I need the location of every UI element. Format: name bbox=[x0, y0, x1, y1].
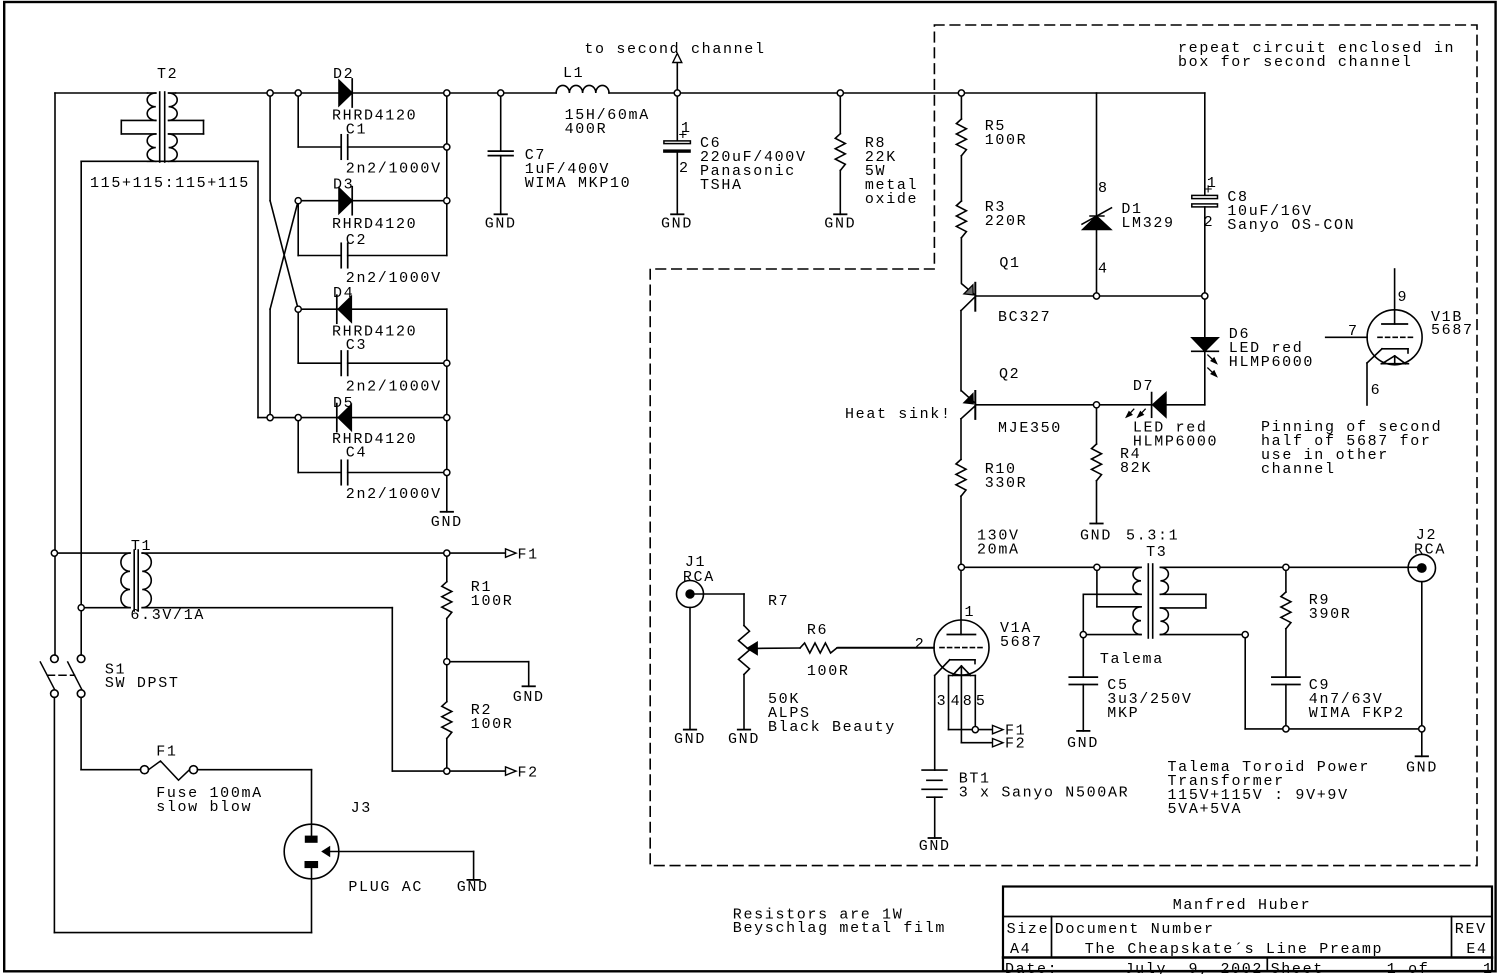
svg-text:July 9, 2002: July 9, 2002 bbox=[1125, 961, 1264, 974]
svg-text:MJE350: MJE350 bbox=[998, 420, 1062, 437]
svg-text:R7: R7 bbox=[768, 593, 789, 610]
svg-text:L1: L1 bbox=[563, 65, 584, 82]
svg-text:A4: A4 bbox=[1010, 941, 1031, 958]
svg-text:Size: Size bbox=[1007, 921, 1050, 938]
svg-text:5.3:1: 5.3:1 bbox=[1126, 528, 1179, 545]
svg-text:Document Number: Document Number bbox=[1055, 921, 1215, 938]
svg-text:C4: C4 bbox=[346, 445, 367, 462]
svg-text:LM329: LM329 bbox=[1121, 215, 1174, 232]
svg-text:GND: GND bbox=[1406, 760, 1438, 777]
svg-text:box for second channel: box for second channel bbox=[1178, 54, 1413, 71]
svg-text:slow blow: slow blow bbox=[156, 799, 252, 816]
svg-text:1 of: 1 of bbox=[1387, 961, 1430, 974]
svg-text:WIMA MKP10: WIMA MKP10 bbox=[525, 175, 632, 192]
svg-text:REV: REV bbox=[1455, 921, 1487, 938]
svg-text:100R: 100R bbox=[985, 132, 1028, 149]
svg-text:TSHA: TSHA bbox=[700, 177, 743, 194]
svg-text:D5: D5 bbox=[333, 395, 354, 412]
svg-text:T2: T2 bbox=[157, 66, 178, 83]
svg-text:PLUG AC: PLUG AC bbox=[348, 879, 423, 896]
svg-text:MKP: MKP bbox=[1107, 705, 1139, 722]
svg-text:Manfred Huber: Manfred Huber bbox=[1173, 897, 1312, 914]
svg-text:2n2/1000V: 2n2/1000V bbox=[346, 270, 442, 287]
svg-text:400R: 400R bbox=[565, 121, 608, 138]
svg-text:4: 4 bbox=[951, 693, 962, 710]
svg-text:GND: GND bbox=[919, 838, 951, 855]
svg-text:220R: 220R bbox=[985, 213, 1028, 230]
svg-text:8: 8 bbox=[963, 693, 974, 710]
svg-text:GND: GND bbox=[661, 216, 693, 233]
svg-text:115+115:115+115: 115+115:115+115 bbox=[90, 175, 250, 192]
svg-text:5687: 5687 bbox=[1431, 322, 1474, 339]
svg-text:100R: 100R bbox=[807, 663, 850, 680]
svg-text:Q2: Q2 bbox=[999, 366, 1020, 383]
svg-text:3: 3 bbox=[937, 693, 948, 710]
svg-text:3 x Sanyo N500AR: 3 x Sanyo N500AR bbox=[959, 785, 1130, 802]
svg-text:Beyschlag metal film: Beyschlag metal film bbox=[733, 920, 946, 937]
svg-text:GND: GND bbox=[824, 216, 856, 233]
svg-text:C3: C3 bbox=[346, 337, 367, 354]
svg-text:GND: GND bbox=[1067, 735, 1099, 752]
svg-text:2n2/1000V: 2n2/1000V bbox=[346, 161, 442, 178]
svg-text:Sanyo OS-CON: Sanyo OS-CON bbox=[1227, 217, 1355, 234]
svg-text:6.3V/1A: 6.3V/1A bbox=[130, 607, 205, 624]
svg-text:J3: J3 bbox=[351, 800, 372, 817]
svg-text:C1: C1 bbox=[346, 122, 367, 139]
svg-text:F2: F2 bbox=[518, 765, 539, 782]
svg-text:4: 4 bbox=[1098, 261, 1109, 278]
svg-text:20mA: 20mA bbox=[977, 542, 1020, 559]
svg-text:1: 1 bbox=[965, 604, 976, 621]
svg-text:7: 7 bbox=[1348, 323, 1359, 340]
svg-text:R6: R6 bbox=[807, 622, 828, 639]
svg-text:GND: GND bbox=[513, 689, 545, 706]
svg-text:Talema: Talema bbox=[1100, 651, 1164, 668]
svg-text:2n2/1000V: 2n2/1000V bbox=[346, 486, 442, 503]
svg-text:Black Beauty: Black Beauty bbox=[768, 719, 896, 736]
svg-text:D7: D7 bbox=[1133, 378, 1154, 395]
svg-text:HLMP6000: HLMP6000 bbox=[1133, 434, 1218, 451]
svg-text:RCA: RCA bbox=[1414, 542, 1446, 559]
svg-text:5687: 5687 bbox=[1000, 634, 1043, 651]
svg-text:T1: T1 bbox=[131, 538, 152, 555]
svg-text:The Cheapskate´s Line Preamp: The Cheapskate´s Line Preamp bbox=[1085, 941, 1384, 958]
svg-text:Heat sink!: Heat sink! bbox=[845, 406, 952, 423]
svg-text:C2: C2 bbox=[346, 232, 367, 249]
svg-text:GND: GND bbox=[431, 514, 463, 531]
svg-text:2: 2 bbox=[1204, 214, 1215, 231]
svg-text:Date:: Date: bbox=[1005, 961, 1058, 974]
svg-text:GND: GND bbox=[1080, 528, 1112, 545]
svg-text:9: 9 bbox=[1398, 289, 1409, 306]
svg-text:GND: GND bbox=[728, 731, 760, 748]
svg-text:F1: F1 bbox=[518, 547, 539, 564]
svg-text:BC327: BC327 bbox=[998, 309, 1051, 326]
svg-text:F2: F2 bbox=[1005, 736, 1026, 753]
svg-text:channel: channel bbox=[1261, 461, 1336, 478]
svg-text:+: + bbox=[678, 128, 689, 145]
svg-text:2: 2 bbox=[679, 160, 690, 177]
svg-text:T3: T3 bbox=[1146, 544, 1167, 561]
svg-text:D4: D4 bbox=[333, 285, 354, 302]
svg-text:Sheet: Sheet bbox=[1271, 961, 1324, 974]
svg-text:F1: F1 bbox=[156, 744, 177, 761]
svg-text:82K: 82K bbox=[1120, 460, 1152, 477]
svg-text:RHRD4120: RHRD4120 bbox=[332, 108, 417, 125]
svg-text:RHRD4120: RHRD4120 bbox=[332, 431, 417, 448]
svg-text:8: 8 bbox=[1098, 180, 1109, 197]
svg-text:D3: D3 bbox=[333, 177, 354, 194]
svg-text:100R: 100R bbox=[471, 716, 514, 733]
svg-text:GND: GND bbox=[674, 731, 706, 748]
svg-text:HLMP6000: HLMP6000 bbox=[1229, 354, 1314, 371]
svg-text:SW DPST: SW DPST bbox=[105, 675, 180, 692]
svg-text:oxide: oxide bbox=[865, 191, 918, 208]
svg-text:E4: E4 bbox=[1466, 941, 1487, 958]
svg-text:to second channel: to second channel bbox=[584, 41, 765, 58]
svg-text:RHRD4120: RHRD4120 bbox=[332, 324, 417, 341]
svg-text:5VA+5VA: 5VA+5VA bbox=[1168, 801, 1243, 818]
svg-text:1: 1 bbox=[1483, 961, 1494, 974]
svg-text:WIMA FKP2: WIMA FKP2 bbox=[1309, 705, 1405, 722]
svg-text:Q1: Q1 bbox=[999, 255, 1020, 272]
svg-text:RCA: RCA bbox=[683, 569, 715, 586]
svg-text:330R: 330R bbox=[985, 475, 1028, 492]
svg-text:390R: 390R bbox=[1309, 606, 1352, 623]
svg-text:6: 6 bbox=[1371, 382, 1382, 399]
svg-text:GND: GND bbox=[457, 879, 489, 896]
svg-text:GND: GND bbox=[485, 216, 517, 233]
svg-text:100R: 100R bbox=[471, 593, 514, 610]
svg-text:+: + bbox=[1204, 182, 1215, 199]
svg-text:2n2/1000V: 2n2/1000V bbox=[346, 379, 442, 396]
svg-text:5: 5 bbox=[976, 693, 987, 710]
svg-text:RHRD4120: RHRD4120 bbox=[332, 216, 417, 233]
svg-text:2: 2 bbox=[915, 636, 926, 653]
svg-text:D2: D2 bbox=[333, 66, 354, 83]
